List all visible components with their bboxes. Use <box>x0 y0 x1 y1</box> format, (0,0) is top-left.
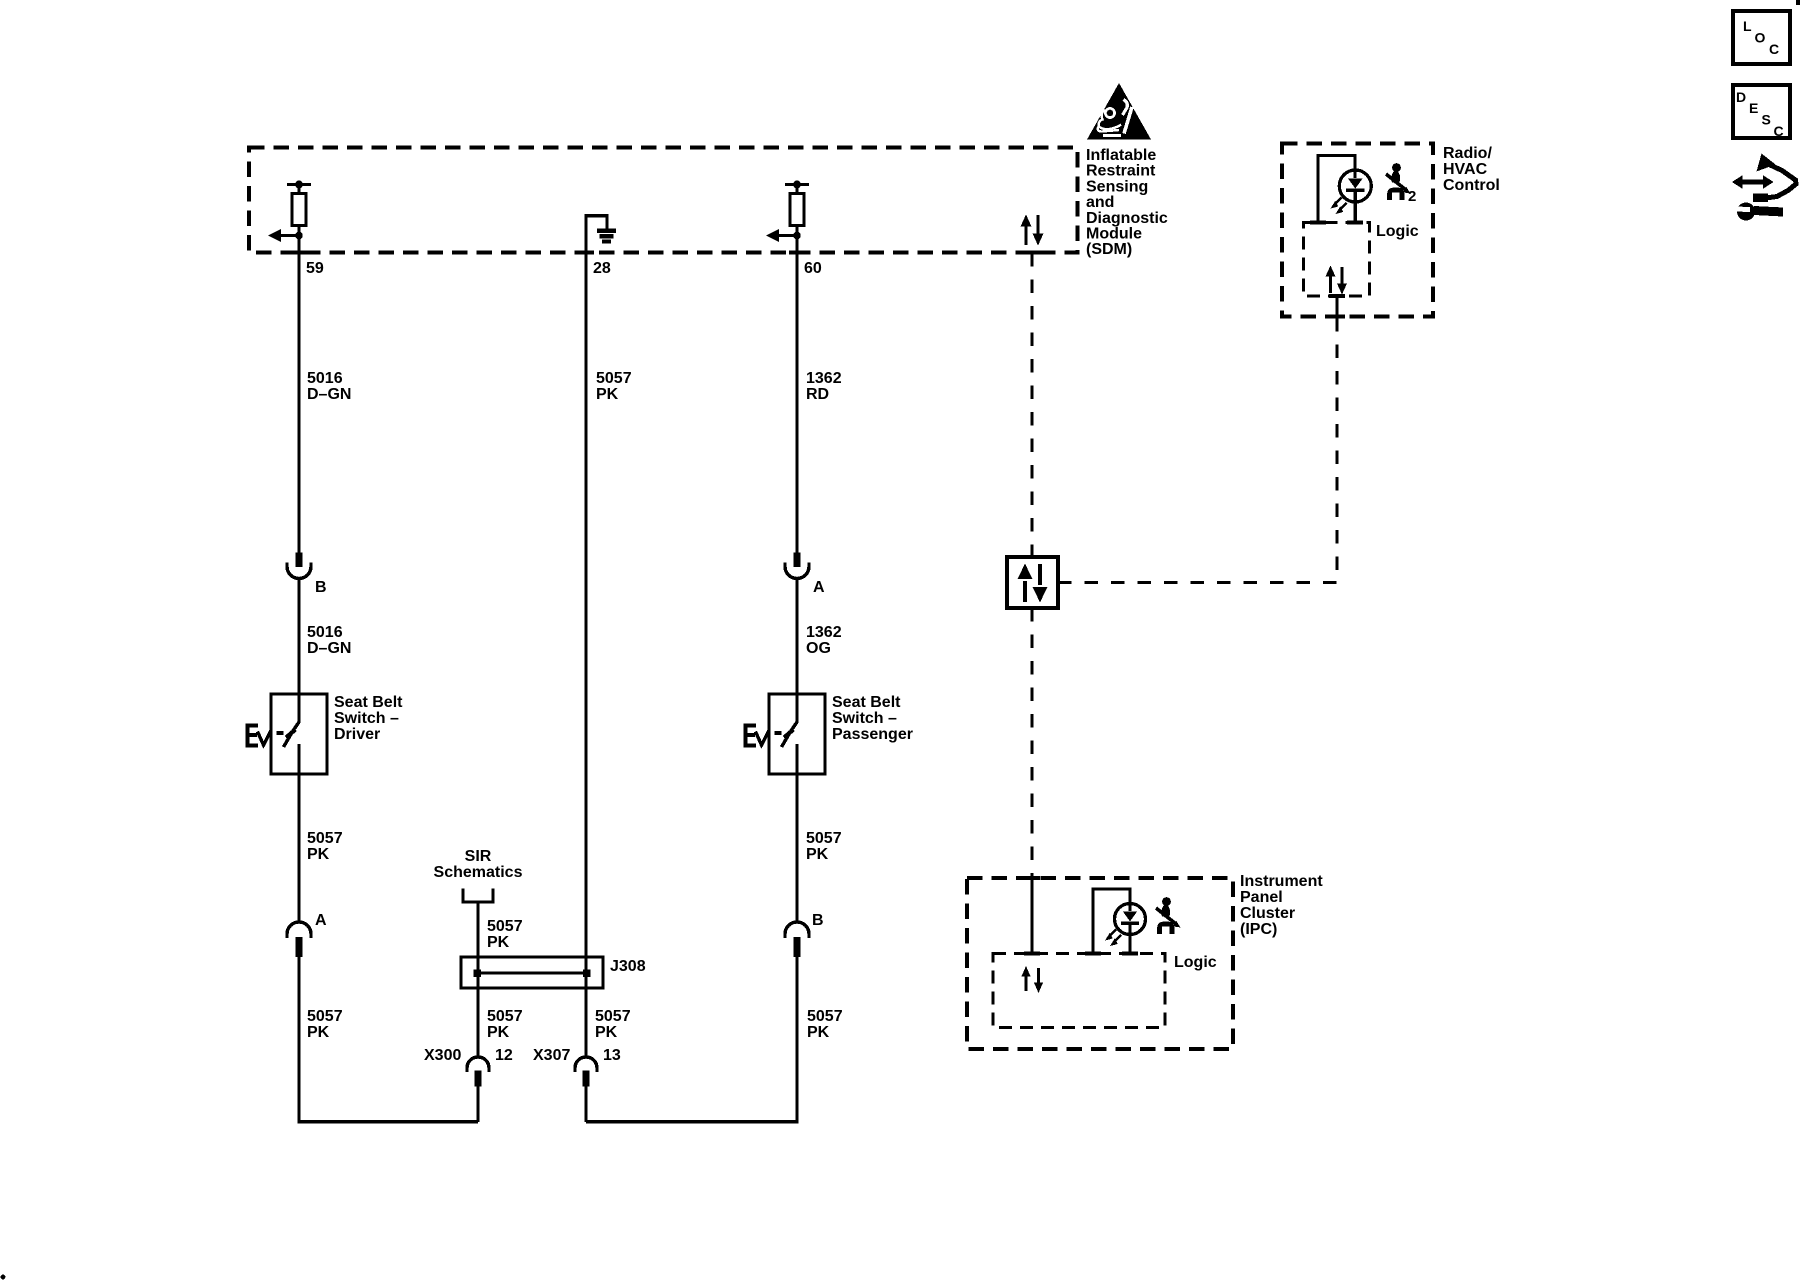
wire SIR bracket to X300 <box>476 902 479 1057</box>
svg-text:Switch –: Switch – <box>832 710 897 727</box>
svg-text:5057: 5057 <box>807 1008 843 1025</box>
svg-text:Switch –: Switch – <box>334 710 399 727</box>
svg-text:5057: 5057 <box>307 1008 343 1025</box>
seat belt switch passenger contacts <box>775 722 798 747</box>
svg-text:OG: OG <box>806 640 831 657</box>
DESC reference box <box>1733 85 1790 139</box>
wire connector A to switch passenger <box>795 579 798 724</box>
wire X307 to bottom run <box>584 1087 587 1122</box>
wire connector A to bottom run <box>297 957 478 1123</box>
SDM module dashed box <box>249 148 1078 253</box>
wire pin 60 to connector A passenger <box>795 226 798 553</box>
svg-text:O: O <box>1755 30 1766 46</box>
svg-text:Sensing: Sensing <box>1086 178 1148 195</box>
svg-text:X307: X307 <box>533 1047 570 1064</box>
junction and arrow at pin 59 <box>268 229 303 242</box>
resistor at SDM pin 60 <box>785 181 809 226</box>
seat belt switch driver contacts <box>277 722 300 747</box>
svg-text:PK: PK <box>307 1024 330 1041</box>
svg-text:Driver: Driver <box>334 726 380 743</box>
off-page reference bracket <box>463 889 493 903</box>
splice pack J308 <box>461 957 603 988</box>
svg-text:Radio/: Radio/ <box>1443 145 1492 162</box>
svg-text:Seat Belt: Seat Belt <box>832 694 901 711</box>
svg-text:and: and <box>1086 194 1114 211</box>
svg-text:Logic: Logic <box>1174 954 1217 971</box>
svg-text:2: 2 <box>1408 188 1416 205</box>
in-line connector A driver lower <box>287 922 311 957</box>
svg-text:Module: Module <box>1086 226 1142 243</box>
svg-text:5057: 5057 <box>487 1008 523 1025</box>
svg-text:PK: PK <box>806 846 829 863</box>
svg-text:5057: 5057 <box>307 830 343 847</box>
svg-text:D: D <box>1736 89 1746 105</box>
border crossing dashes <box>1024 223 1363 954</box>
svg-text:B: B <box>315 579 327 596</box>
svg-text:Inflatable: Inflatable <box>1086 147 1156 164</box>
IPC logic inner dashed box <box>993 954 1165 1028</box>
seat belt switch passenger box <box>769 694 825 774</box>
in-line connector A passenger <box>785 553 809 579</box>
IPC serial wire <box>1030 878 1033 954</box>
switch actuator symbol E driver <box>248 726 272 746</box>
svg-text:D–GN: D–GN <box>307 386 351 403</box>
IPC dashed box <box>967 878 1233 1049</box>
svg-text:C: C <box>1774 123 1784 139</box>
svg-text:PK: PK <box>487 934 510 951</box>
dashed serial data wire gateway to IPC <box>1031 608 1034 878</box>
svg-text:HVAC: HVAC <box>1443 161 1488 178</box>
junction and arrow at pin 60 <box>766 229 801 242</box>
svg-text:Passenger: Passenger <box>832 726 913 743</box>
svg-text:5057: 5057 <box>595 1008 631 1025</box>
resistor at SDM pin 59 <box>287 181 311 226</box>
svg-text:Restraint: Restraint <box>1086 163 1156 180</box>
svg-text:28: 28 <box>593 260 611 277</box>
LED indicator IPC <box>1093 889 1146 954</box>
svg-text:5016: 5016 <box>307 624 343 641</box>
svg-text:(SDM): (SDM) <box>1086 241 1132 258</box>
svg-text:X300: X300 <box>424 1047 461 1064</box>
svg-text:12: 12 <box>495 1047 513 1064</box>
wire ground pin 28 down to X307 <box>584 214 587 1057</box>
wire pin 59 to connector B <box>297 226 300 553</box>
dashed serial data wire gateway to radio <box>1058 319 1337 583</box>
serial arrows inside IPC logic <box>1021 966 1043 993</box>
serial arrows inside radio logic <box>1326 266 1348 295</box>
svg-text:Seat Belt: Seat Belt <box>334 694 403 711</box>
svg-text:PK: PK <box>807 1024 830 1041</box>
svg-text:Control: Control <box>1443 177 1500 194</box>
dashed serial data wire SDM to gateway <box>1031 253 1034 557</box>
svg-text:Cluster: Cluster <box>1240 905 1295 922</box>
svg-text:5057: 5057 <box>596 370 632 387</box>
LED indicator radio <box>1318 156 1371 223</box>
seat belt telltale icon radio <box>1386 163 1411 200</box>
seat belt telltale icon IPC <box>1156 897 1181 934</box>
diagnostic navigation icon <box>1732 154 1796 221</box>
svg-text:1362: 1362 <box>806 624 842 641</box>
svg-text:Instrument: Instrument <box>1240 873 1323 890</box>
wire connector B to bottom run <box>586 957 799 1123</box>
serial data arrows inside SDM <box>1021 215 1044 246</box>
page mark dot <box>1 1275 6 1280</box>
page corner mark <box>1796 0 1800 5</box>
svg-text:SIR: SIR <box>465 848 492 865</box>
radio serial data stub <box>1335 296 1338 319</box>
svg-text:PK: PK <box>595 1024 618 1041</box>
wire switch driver to connector A <box>297 744 300 922</box>
svg-text:59: 59 <box>306 260 324 277</box>
in-line connector B driver <box>287 553 311 579</box>
svg-text:RD: RD <box>806 386 829 403</box>
wire connector B to switch <box>297 579 300 724</box>
svg-text:(IPC): (IPC) <box>1240 921 1277 938</box>
svg-text:S: S <box>1762 112 1771 128</box>
svg-text:Logic: Logic <box>1376 223 1419 240</box>
svg-text:PK: PK <box>596 386 619 403</box>
in-line connector B passenger lower <box>785 922 809 957</box>
svg-text:5057: 5057 <box>806 830 842 847</box>
LED emission arrows IPC <box>1105 930 1121 947</box>
SRS warning triangle icon <box>1087 83 1151 140</box>
svg-text:A: A <box>813 579 825 596</box>
svg-text:C: C <box>1769 41 1779 57</box>
svg-text:A: A <box>315 912 327 929</box>
svg-text:D–GN: D–GN <box>307 640 351 657</box>
svg-text:13: 13 <box>603 1047 621 1064</box>
svg-text:B: B <box>812 912 824 929</box>
svg-text:Diagnostic: Diagnostic <box>1086 210 1168 227</box>
svg-text:J308: J308 <box>610 958 646 975</box>
seat belt switch driver box <box>271 694 327 774</box>
svg-text:5057: 5057 <box>487 918 523 935</box>
switch actuator symbol E passenger <box>746 726 770 746</box>
svg-text:60: 60 <box>804 260 822 277</box>
ground symbol at SDM pin 28 <box>584 214 616 252</box>
svg-text:5016: 5016 <box>307 370 343 387</box>
svg-text:E: E <box>1749 100 1758 116</box>
serial data gateway box <box>1007 557 1058 608</box>
wire X300 to bottom run <box>476 1087 479 1122</box>
radio logic inner dashed box <box>1304 223 1370 297</box>
SDM name label <box>1086 147 1168 258</box>
svg-text:L: L <box>1743 18 1752 34</box>
Radio HVAC control dashed box <box>1282 144 1433 317</box>
svg-text:Schematics: Schematics <box>434 864 523 881</box>
svg-text:PK: PK <box>307 846 330 863</box>
svg-text:Panel: Panel <box>1240 889 1283 906</box>
svg-text:1362: 1362 <box>806 370 842 387</box>
wire switch passenger to connector B <box>795 744 798 922</box>
LED emission arrows radio <box>1331 198 1347 215</box>
svg-text:PK: PK <box>487 1024 510 1041</box>
LOC reference box <box>1733 11 1790 64</box>
in-line connector X307 terminal 13 <box>575 1057 597 1087</box>
in-line connector X300 terminal 12 <box>467 1057 489 1087</box>
